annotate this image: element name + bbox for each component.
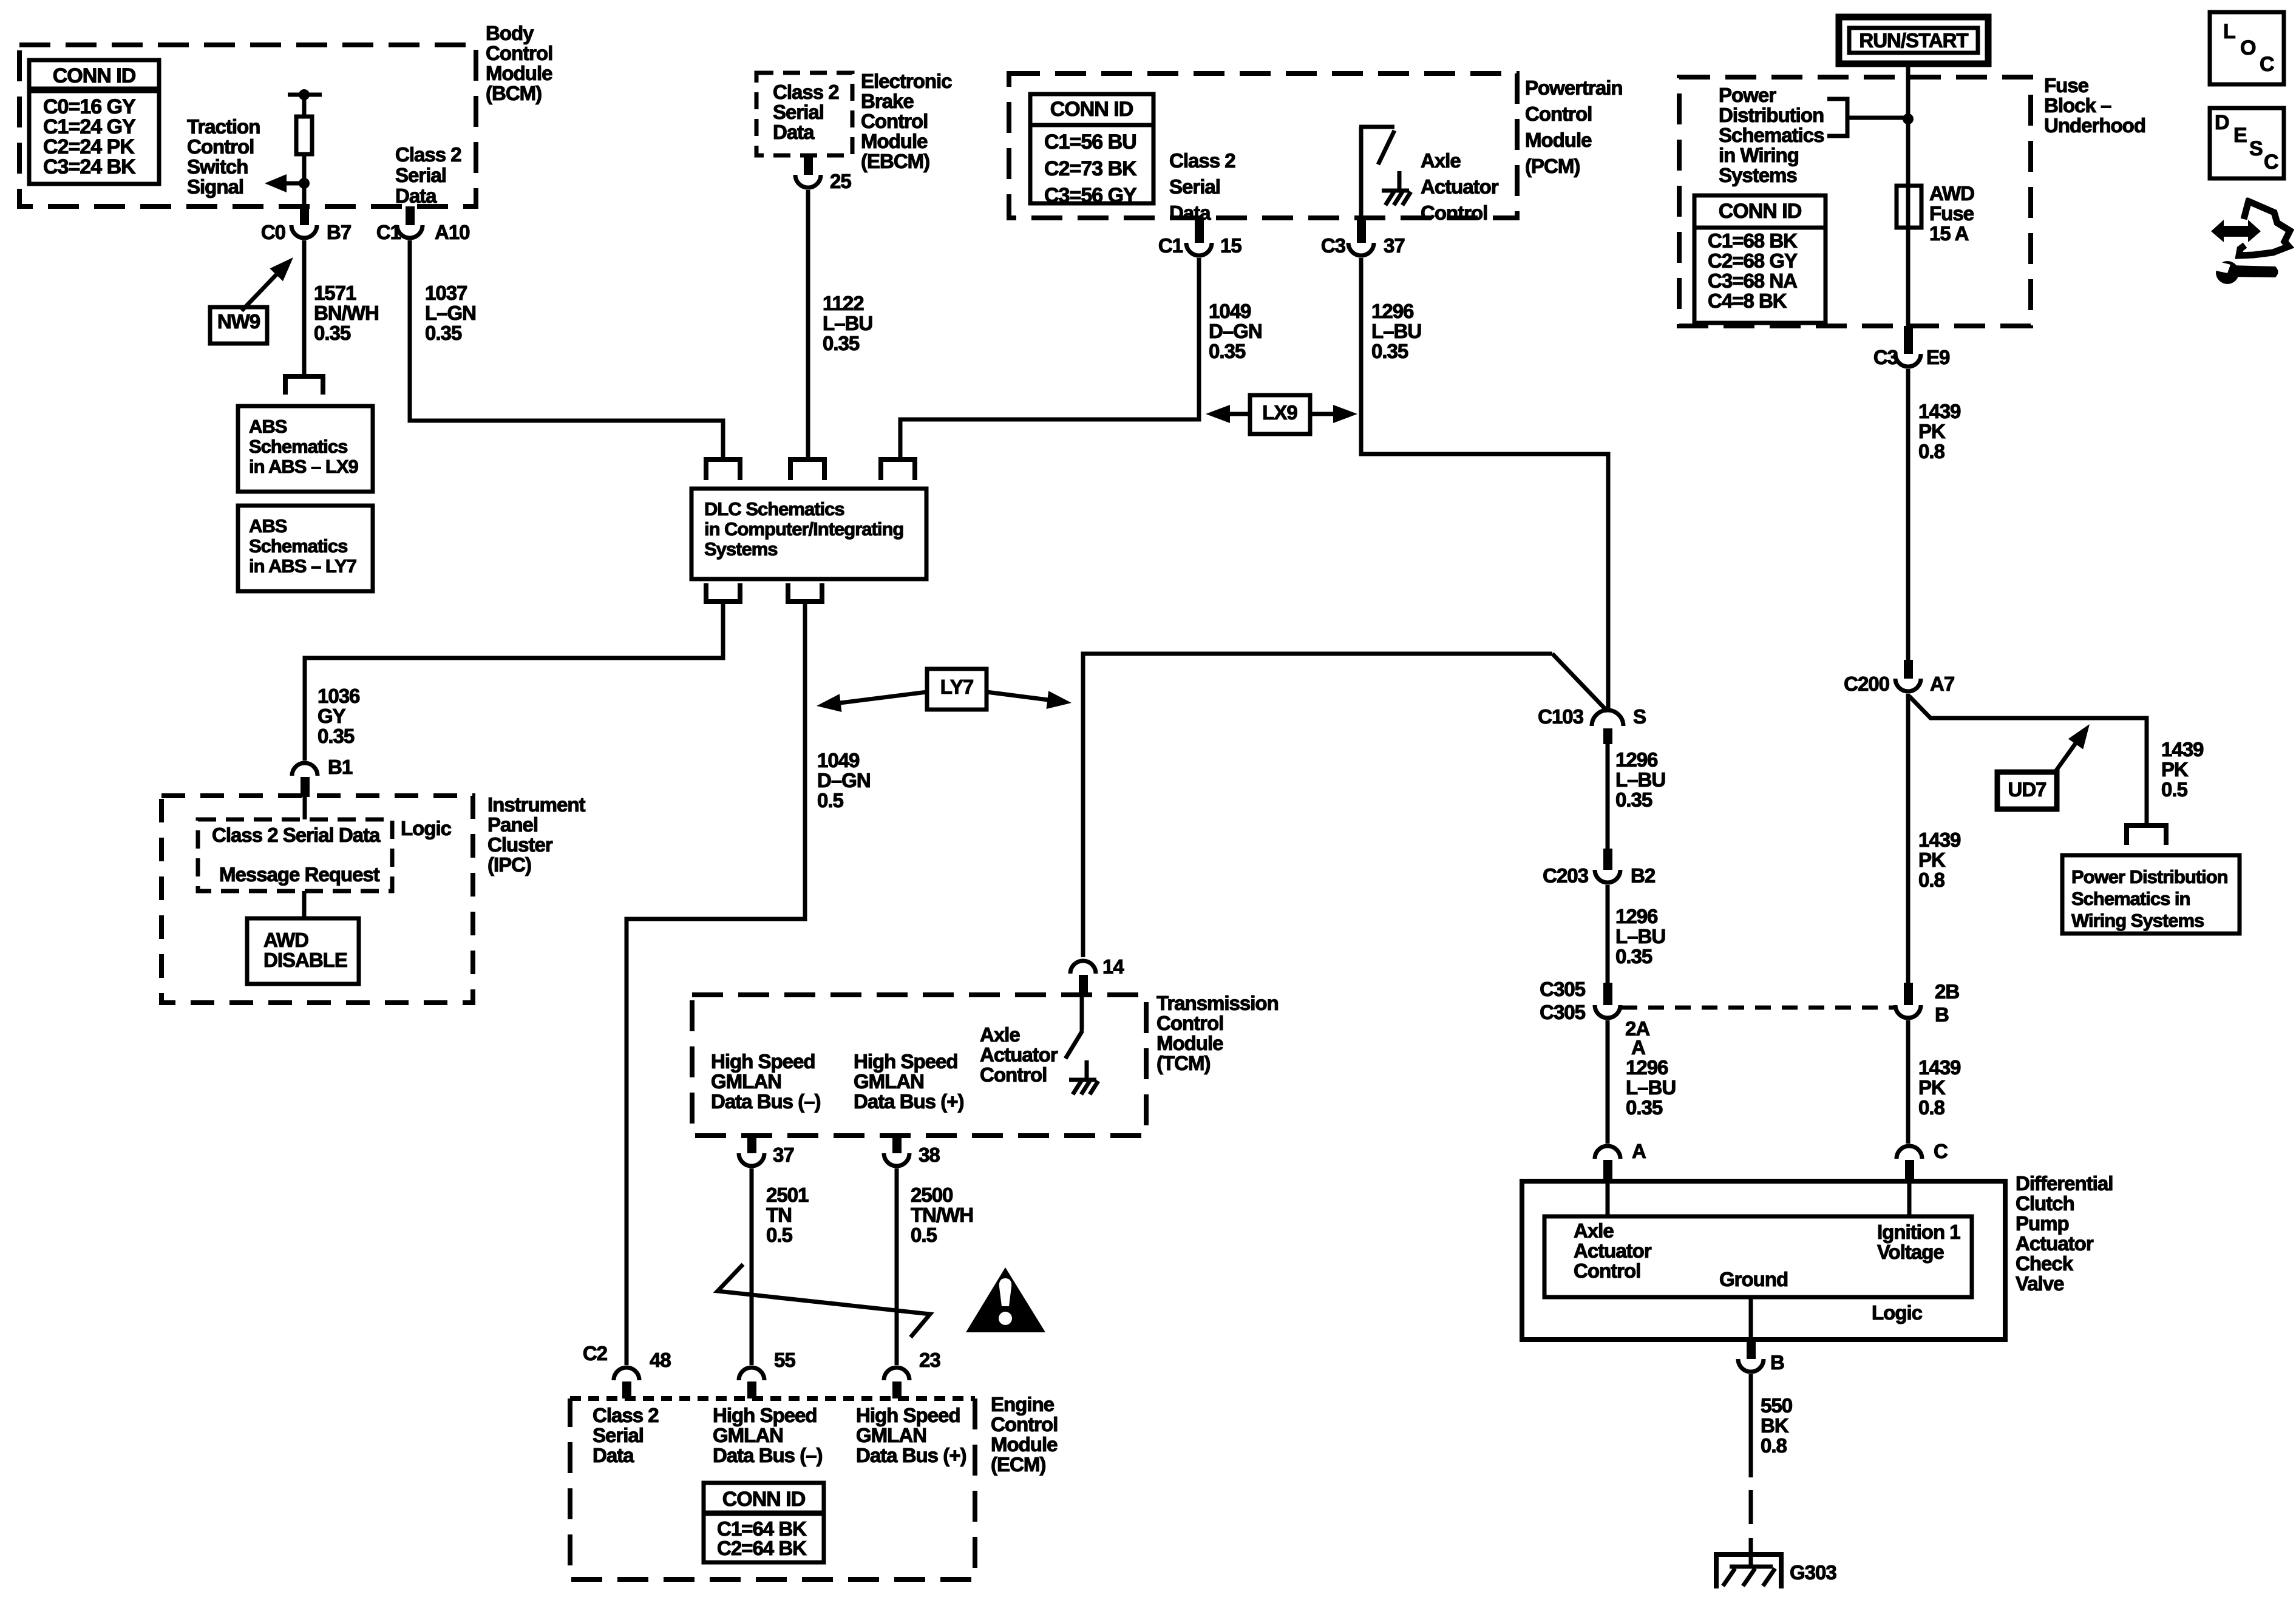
label Axle Actuator Control (valve) (1574, 1219, 1652, 1282)
connector 2B/B (1895, 980, 1959, 1026)
svg-text:BK: BK (1761, 1414, 1789, 1437)
svg-text:Distribution: Distribution (1719, 104, 1824, 126)
svg-text:Data Bus (+): Data Bus (+) (854, 1090, 963, 1113)
svg-text:Voltage: Voltage (1877, 1241, 1944, 1263)
svg-text:0.8: 0.8 (1918, 440, 1945, 463)
svg-text:G303: G303 (1790, 1561, 1836, 1584)
BCM CONN ID table (29, 60, 159, 184)
connector C3/E9 (1873, 326, 1950, 368)
svg-text:TN: TN (766, 1204, 792, 1226)
svg-text:Control: Control (980, 1063, 1047, 1086)
svg-text:48: 48 (650, 1349, 671, 1371)
svg-text:ABS: ABS (249, 416, 287, 437)
svg-text:Traction: Traction (187, 115, 260, 138)
wire 1571 BN/WH from C0 to ABS connector (302, 240, 307, 375)
wire label 1439 PK 0.8 (E9-C200) (1918, 400, 1961, 463)
wire label 1571 BN/WH 0.35 (314, 282, 379, 344)
svg-text:23: 23 (919, 1349, 940, 1371)
label High Speed GMLAN Data Bus (-) TCM (711, 1050, 821, 1113)
svg-text:AWD: AWD (263, 929, 308, 951)
wire Ground to B connector (1749, 1297, 1753, 1340)
box ABS Schematics in ABS - LY7 (238, 506, 373, 591)
svg-text:37: 37 (773, 1144, 794, 1166)
dashed wire C305 to 2B (1622, 1006, 1894, 1010)
svg-text:C203: C203 (1543, 864, 1589, 887)
wire 2501 TN from TCM 37 to ECM 55 (750, 1168, 754, 1365)
IPC logic inner dashed box (198, 819, 392, 891)
in-line connector above Power Distribution box (2127, 825, 2166, 845)
svg-text:0.8: 0.8 (1918, 869, 1945, 891)
svg-text:Control: Control (861, 110, 928, 132)
svg-text:B1: B1 (328, 756, 353, 778)
wire 1122 L-BU from EBCM to DLC (806, 190, 810, 459)
svg-text:C3: C3 (1321, 234, 1346, 257)
PCM CONN ID table (1030, 94, 1153, 207)
DLC top connector bracket 3 (881, 459, 915, 480)
svg-text:1439: 1439 (1918, 400, 1961, 422)
svg-text:A: A (1632, 1140, 1646, 1162)
svg-text:PK: PK (1918, 1076, 1946, 1099)
connector C1/A10 (376, 206, 470, 243)
connector B (valve ground) (1738, 1340, 1784, 1374)
svg-text:1049: 1049 (817, 749, 860, 771)
svg-text:PK: PK (1918, 420, 1946, 442)
svg-text:1037: 1037 (425, 282, 467, 304)
svg-text:B: B (1770, 1351, 1784, 1374)
svg-text:ABS: ABS (249, 515, 287, 537)
wire C200 to 2B (1906, 694, 1911, 983)
svg-text:Actuator: Actuator (1574, 1239, 1652, 1262)
module TCM dashed outline (692, 995, 1146, 1136)
svg-text:CONN ID: CONN ID (53, 64, 136, 87)
svg-text:E9: E9 (1926, 346, 1950, 368)
svg-text:Class 2: Class 2 (395, 143, 461, 166)
label Ignition 1 Voltage (1877, 1221, 1960, 1263)
svg-text:Underhood: Underhood (2044, 114, 2145, 137)
svg-text:Module: Module (991, 1433, 1058, 1456)
svg-text:LX9: LX9 (1262, 401, 1297, 424)
icon DESC (2210, 108, 2284, 178)
label UD7 with arrow (1997, 724, 2090, 809)
svg-text:NW9: NW9 (217, 310, 260, 333)
svg-text:S: S (2249, 137, 2263, 160)
svg-text:GMLAN: GMLAN (713, 1424, 783, 1446)
svg-text:High Speed: High Speed (854, 1050, 958, 1073)
svg-text:C103: C103 (1538, 705, 1584, 728)
wire 2B to C (1906, 1020, 1911, 1144)
svg-text:GMLAN: GMLAN (854, 1070, 924, 1093)
svg-text:Schematics: Schematics (249, 535, 347, 557)
svg-text:C2: C2 (583, 1342, 608, 1364)
wire B1 into logic box (303, 797, 307, 819)
svg-text:C: C (2264, 151, 2278, 174)
connector C (diff valve) (1897, 1140, 1948, 1181)
svg-text:Power: Power (1719, 84, 1776, 106)
wire 1049 D-GN from DLC to ECM C2/48 (627, 602, 805, 1365)
svg-text:Logic: Logic (401, 817, 452, 839)
svg-text:14: 14 (1102, 955, 1124, 978)
box AWD DISABLE (247, 918, 359, 984)
svg-text:L–BU: L–BU (1615, 768, 1665, 791)
svg-text:Control: Control (1156, 1012, 1223, 1034)
svg-text:38: 38 (919, 1144, 940, 1166)
svg-text:LY7: LY7 (940, 676, 974, 698)
connector 23 (ECM) (884, 1349, 940, 1398)
axle actuator switch in TCM (1065, 996, 1098, 1094)
DLC bottom connector bracket 5 (788, 583, 822, 602)
svg-text:L–BU: L–BU (1371, 320, 1421, 342)
wire RUN/START to fuse (1906, 64, 1911, 186)
svg-text:Data: Data (395, 185, 437, 207)
ECM CONN ID table (704, 1483, 824, 1562)
svg-text:Cluster: Cluster (487, 833, 553, 856)
in-line connector above ABS box (285, 376, 323, 395)
svg-text:1049: 1049 (1209, 300, 1251, 322)
svg-text:1296: 1296 (1371, 300, 1414, 322)
svg-text:GMLAN: GMLAN (711, 1070, 781, 1093)
svg-text:DISABLE: DISABLE (263, 949, 347, 971)
module ECM dashed outline (570, 1398, 975, 1579)
svg-text:37: 37 (1384, 234, 1405, 257)
svg-text:D: D (2215, 111, 2229, 134)
svg-text:Schematics in: Schematics in (2071, 888, 2190, 909)
svg-text:L–GN: L–GN (425, 302, 476, 324)
wire label 1036 GY 0.35 (318, 685, 360, 747)
wire B to G303 (partly dashed) (1749, 1374, 1753, 1554)
label Engine Control Module (ECM) (991, 1393, 1058, 1476)
svg-text:Control: Control (1421, 202, 1487, 224)
svg-text:CONN ID: CONN ID (1719, 200, 1802, 223)
svg-text:L–BU: L–BU (823, 312, 872, 334)
svg-text:Serial: Serial (395, 164, 446, 186)
svg-text:0.5: 0.5 (2161, 778, 2188, 801)
svg-text:TN/WH: TN/WH (911, 1204, 973, 1226)
module EBCM dashed outline (756, 73, 852, 155)
wire from C1/A10 to DLC (410, 240, 723, 459)
svg-text:1296: 1296 (1615, 905, 1658, 927)
svg-text:BN/WH: BN/WH (314, 302, 379, 324)
label High Speed GMLAN Data Bus (+) ECM (856, 1404, 966, 1466)
label Class 2 Serial Data (EBCM) (773, 81, 839, 143)
svg-text:C305: C305 (1540, 978, 1586, 1000)
svg-text:Data Bus (–): Data Bus (–) (713, 1444, 823, 1466)
svg-text:GMLAN: GMLAN (856, 1424, 926, 1446)
wire C305 to A (1606, 1020, 1610, 1144)
svg-text:Message Request: Message Request (219, 863, 380, 886)
module PCM dashed outline (1009, 73, 1517, 218)
svg-text:CONN ID: CONN ID (722, 1488, 806, 1511)
svg-text:C2=68 GY: C2=68 GY (1708, 249, 1798, 272)
svg-text:DLC Schematics: DLC Schematics (704, 498, 844, 520)
wire label 1296 L-BU 0.35 (C203-C305) (1615, 905, 1665, 968)
svg-text:Logic: Logic (1872, 1301, 1923, 1324)
svg-text:C305: C305 (1540, 1001, 1586, 1023)
svg-text:0.8: 0.8 (1918, 1096, 1945, 1119)
label Traction Control Switch Signal (187, 115, 260, 198)
svg-text:15: 15 (1220, 234, 1241, 257)
svg-text:Ignition 1: Ignition 1 (1877, 1221, 1960, 1243)
svg-text:1439: 1439 (2161, 738, 2204, 761)
connector B1 (IPC) (292, 756, 353, 797)
svg-text:Engine: Engine (991, 1393, 1055, 1415)
connector C0/B7 (261, 206, 351, 243)
svg-text:Module: Module (861, 130, 928, 152)
svg-text:1036: 1036 (318, 685, 360, 707)
svg-text:Signal: Signal (187, 175, 243, 198)
svg-text:C200: C200 (1844, 673, 1889, 695)
wire 1296 L-BU from PCM C3/37 toward C103 (1361, 258, 1608, 711)
svg-text:L–BU: L–BU (1615, 925, 1665, 947)
svg-text:Actuator: Actuator (980, 1043, 1058, 1066)
svg-text:0.5: 0.5 (817, 789, 844, 812)
connector C2/48 (ECM) (583, 1342, 671, 1398)
svg-text:Brake: Brake (861, 90, 914, 112)
label G303 (1790, 1561, 1836, 1584)
connector A (diff valve) (1595, 1140, 1646, 1181)
svg-text:0.35: 0.35 (425, 322, 462, 344)
svg-text:Control: Control (991, 1413, 1058, 1436)
label Body Control Module (BCM) (486, 22, 552, 104)
label Fuse Block - Underhood (2044, 74, 2145, 137)
svg-text:Ground: Ground (1719, 1268, 1788, 1290)
module BCM dashed outline (19, 45, 476, 206)
svg-text:Powertrain: Powertrain (1525, 76, 1623, 99)
svg-text:A7: A7 (1930, 673, 1954, 695)
svg-text:0.35: 0.35 (318, 725, 355, 747)
svg-text:Body: Body (486, 22, 534, 44)
wire label 1439 PK 0.5 (2161, 738, 2204, 801)
DLC top connector bracket 2 (790, 459, 824, 480)
svg-text:(TCM): (TCM) (1156, 1052, 1210, 1074)
svg-text:(ECM): (ECM) (991, 1453, 1045, 1476)
svg-text:Clutch: Clutch (2016, 1192, 2074, 1215)
svg-text:1439: 1439 (1918, 829, 1961, 851)
wire label 2501 TN 0.5 (766, 1184, 809, 1246)
connector 14 (TCM) (1070, 955, 1124, 996)
svg-text:Panel: Panel (487, 813, 538, 836)
svg-text:Data Bus (–): Data Bus (–) (711, 1090, 821, 1113)
svg-text:RUN/START: RUN/START (1859, 29, 1968, 52)
svg-text:A: A (1631, 1036, 1645, 1059)
svg-text:Differential: Differential (2016, 1172, 2113, 1195)
svg-text:15 A: 15 A (1929, 222, 1969, 245)
fuse AWD 15A (1897, 186, 1921, 228)
label Differential Clutch Pump Actuator Check Valve (2016, 1172, 2113, 1295)
svg-text:C3=56 GY: C3=56 GY (1044, 184, 1137, 207)
svg-text:Axle: Axle (1574, 1219, 1614, 1242)
svg-text:B2: B2 (1631, 864, 1656, 887)
svg-text:D–GN: D–GN (817, 769, 871, 792)
fuse block CONN ID table (1694, 195, 1826, 323)
svg-text:Power Distribution: Power Distribution (2071, 866, 2228, 887)
svg-text:Axle: Axle (1421, 149, 1461, 172)
svg-text:Data: Data (773, 121, 815, 143)
svg-text:Electronic: Electronic (861, 70, 952, 92)
label Logic (IPC) (401, 817, 452, 839)
wire label 1296 L-BU 0.35 (to A) (1626, 1056, 1676, 1119)
svg-text:1571: 1571 (314, 282, 356, 304)
svg-text:C1: C1 (1158, 234, 1183, 257)
svg-text:in Computer/Integrating: in Computer/Integrating (704, 518, 903, 540)
svg-text:GY: GY (318, 705, 346, 727)
power feed RUN/START box (1839, 17, 1988, 64)
svg-text:Schematics: Schematics (249, 436, 347, 457)
axle actuator switch in PCM (1359, 127, 1411, 218)
label Instrument Panel Cluster (IPC) (487, 793, 586, 876)
svg-text:1122: 1122 (823, 292, 864, 314)
svg-text:Data: Data (593, 1444, 634, 1466)
svg-text:Check: Check (2016, 1252, 2074, 1275)
wire label 1439 PK 0.8 (C200-2B) (1918, 829, 1961, 891)
svg-text:Actuator: Actuator (2016, 1232, 2094, 1255)
svg-text:C4=8 BK: C4=8 BK (1708, 290, 1787, 312)
svg-text:1296: 1296 (1626, 1056, 1668, 1079)
svg-text:L: L (2223, 20, 2235, 43)
svg-text:O: O (2240, 36, 2256, 59)
svg-text:Axle: Axle (980, 1023, 1020, 1046)
svg-text:Class 2: Class 2 (773, 81, 839, 103)
label Powertrain Control Module (PCM) (1525, 76, 1623, 177)
label Class 2 Serial Data (PCM) (1169, 149, 1235, 224)
svg-text:Class 2 Serial Data: Class 2 Serial Data (212, 824, 381, 846)
svg-text:0.5: 0.5 (766, 1224, 793, 1246)
svg-text:0.35: 0.35 (1615, 788, 1652, 811)
wire C103 to C203 (1606, 744, 1610, 849)
box ABS Schematics in ABS - LX9 (238, 406, 373, 492)
svg-text:Valve: Valve (2016, 1272, 2064, 1295)
svg-text:C1=68 BK: C1=68 BK (1708, 229, 1798, 252)
label Power Distribution Schematics in Wiring Systems (fuse block) (1719, 84, 1824, 186)
DLC top connector bracket 1 (706, 459, 740, 480)
svg-text:B7: B7 (327, 221, 351, 243)
box Power Distribution Schematics in Wiring Systems (2062, 855, 2240, 934)
svg-text:(PCM): (PCM) (1525, 155, 1580, 177)
module Fuse Block - Underhood dashed outline (1679, 77, 2031, 326)
label Class 2 Serial Data (ECM) (593, 1404, 659, 1466)
svg-text:Data: Data (1169, 202, 1211, 224)
svg-text:Actuator: Actuator (1421, 175, 1499, 198)
svg-text:550: 550 (1761, 1394, 1792, 1417)
branch wire to Power Distribution via UD7 (1909, 696, 2147, 825)
connector 37 (TCM) (739, 1136, 794, 1166)
svg-text:Transmission: Transmission (1156, 992, 1279, 1014)
wire logic to AWD DISABLE (302, 891, 307, 918)
module IPC dashed outline (161, 796, 473, 1003)
label High Speed GMLAN Data Bus (-) ECM (713, 1404, 823, 1466)
svg-text:C1: C1 (376, 221, 401, 243)
svg-text:CONN ID: CONN ID (1050, 98, 1133, 121)
svg-text:High Speed: High Speed (856, 1404, 960, 1426)
svg-text:Serial: Serial (1169, 175, 1220, 198)
label Ground (1719, 1268, 1788, 1290)
connector 55 (ECM) (739, 1349, 795, 1398)
svg-text:C3=24 BK: C3=24 BK (43, 155, 136, 178)
connector C203/B2 (1543, 849, 1656, 887)
DLC bottom connector bracket 4 (706, 583, 740, 602)
svg-text:(EBCM): (EBCM) (861, 150, 929, 172)
svg-text:L–BU: L–BU (1626, 1076, 1676, 1099)
svg-text:PK: PK (2161, 758, 2189, 781)
svg-text:1296: 1296 (1615, 748, 1658, 771)
junction dot and left arrow (traction signal) (265, 174, 310, 192)
wire E9 to C200 (1906, 369, 1911, 660)
wire 1296 L-BU branch to TCM 14 (1083, 654, 1552, 957)
svg-text:UD7: UD7 (2008, 778, 2046, 801)
svg-text:Pump: Pump (2016, 1212, 2069, 1235)
diagonal wire into C103 (1552, 654, 1608, 711)
svg-text:Control: Control (187, 135, 254, 158)
svg-text:Fuse: Fuse (1929, 202, 1974, 225)
svg-text:0.35: 0.35 (823, 332, 860, 354)
wire label 1122 L-BU 0.35 (823, 292, 872, 354)
wire A into logic (1606, 1181, 1610, 1216)
svg-text:Systems: Systems (1719, 164, 1797, 186)
connector C3/37 (PCM) (1321, 218, 1405, 257)
wire label 1037 L-GN 0.35 (425, 282, 476, 344)
label Electronic Brake Control Module (EBCM) (861, 70, 952, 172)
box diff valve logic inner (1544, 1216, 1972, 1297)
label Axle Actuator Control (TCM) (980, 1023, 1058, 1086)
wire C into logic (1907, 1181, 1912, 1216)
wire 2500 TN/WH from TCM 38 to ECM 23 (895, 1168, 899, 1365)
svg-text:C3=68 NA: C3=68 NA (1708, 269, 1797, 292)
connector C1/15 (PCM) (1158, 218, 1242, 257)
svg-text:Control: Control (1574, 1259, 1640, 1282)
connector C200/A7 (1844, 660, 1954, 695)
svg-text:55: 55 (774, 1349, 795, 1371)
svg-text:Serial: Serial (773, 101, 824, 123)
wire 1049 D-GN from PCM C1/15 to DLC (900, 258, 1199, 459)
svg-text:A10: A10 (435, 221, 470, 243)
svg-text:Switch: Switch (187, 155, 248, 178)
svg-text:Control: Control (1525, 103, 1592, 125)
svg-text:C0: C0 (261, 221, 285, 243)
wire label 2500 TN/WH 0.5 (911, 1184, 973, 1246)
svg-text:C: C (2260, 53, 2274, 76)
svg-text:Module: Module (486, 62, 552, 84)
wire label 1296 L-BU 0.35 (1371, 300, 1421, 362)
svg-text:AWD: AWD (1929, 182, 1974, 205)
svg-text:in ABS – LX9: in ABS – LX9 (249, 456, 359, 477)
svg-text:Fuse: Fuse (2044, 74, 2089, 97)
svg-text:Block –: Block – (2044, 94, 2111, 117)
svg-text:2501: 2501 (766, 1184, 809, 1206)
svg-text:Instrument: Instrument (487, 793, 586, 816)
svg-text:Class 2: Class 2 (1169, 149, 1235, 172)
svg-text:(BCM): (BCM) (486, 82, 542, 104)
wire label 1439 PK 0.8 (2B-C) (1918, 1056, 1961, 1119)
warning triangle (966, 1267, 1045, 1332)
svg-text:C3: C3 (1873, 346, 1898, 368)
option tag LY7 with arrows (817, 669, 1072, 712)
svg-text:0.35: 0.35 (314, 322, 351, 344)
svg-text:in ABS – LY7: in ABS – LY7 (249, 555, 356, 577)
connector C305/C305 2A A (1540, 978, 1649, 1059)
svg-text:Class 2: Class 2 (593, 1404, 659, 1426)
label Logic (valve) (1872, 1301, 1923, 1324)
svg-text:0.35: 0.35 (1209, 340, 1246, 362)
label Transmission Control Module (TCM) (1156, 992, 1279, 1074)
box differential clutch pump actuator check valve outer (1522, 1181, 2005, 1340)
svg-text:Serial: Serial (593, 1424, 644, 1446)
icon hand with arrow and wrench (2211, 198, 2290, 284)
icon LOC (2210, 12, 2284, 84)
label Class 2 Serial Data (BCM) (395, 143, 461, 207)
box DLC Schematics in Computer/Integrating Systems (691, 489, 926, 579)
svg-text:High Speed: High Speed (713, 1404, 817, 1426)
svg-text:E: E (2233, 124, 2247, 147)
svg-text:Module: Module (1525, 129, 1592, 151)
